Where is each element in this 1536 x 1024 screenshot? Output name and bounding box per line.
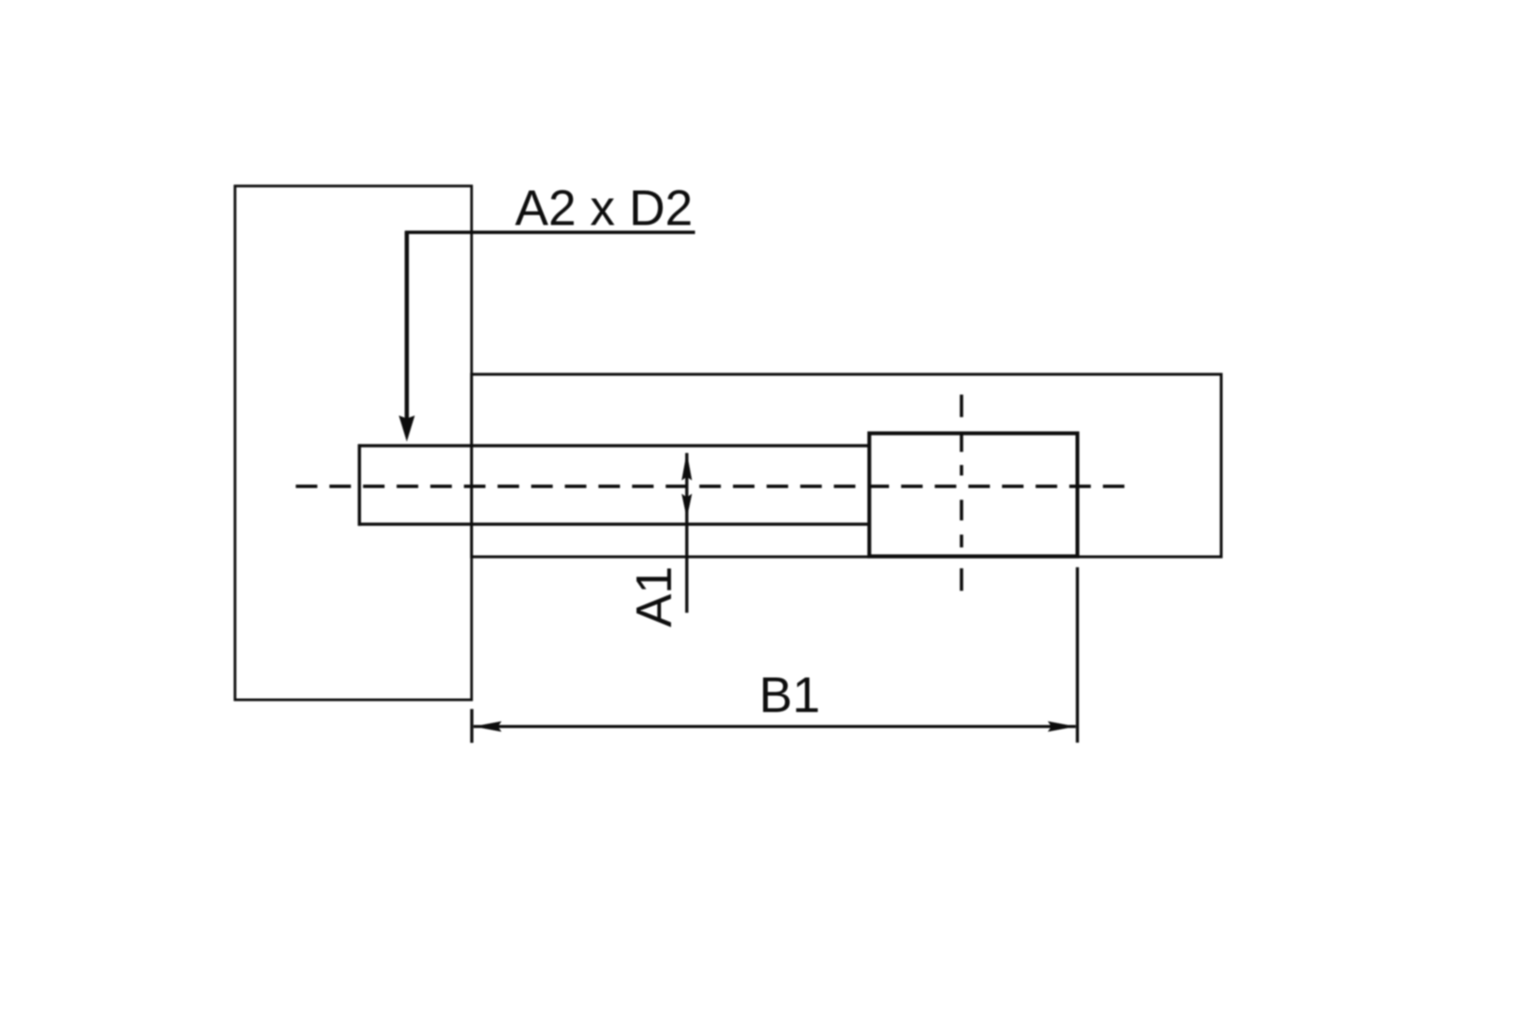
A1 down arrowhead — [682, 494, 692, 519]
shaft top line — [358, 444, 869, 447]
leader horizontal line under A2 x D2 — [405, 231, 695, 234]
flange body (tall rectangle, left) — [235, 186, 472, 700]
A1 up arrowhead — [682, 452, 692, 480]
svg-text:A2 x D2: A2 x D2 — [515, 180, 693, 236]
B1 right extension line — [1076, 567, 1079, 742]
leader vertical line — [405, 232, 409, 424]
svg-text:B1: B1 — [759, 667, 820, 723]
leader arrowhead (down) — [399, 416, 415, 442]
B1 left arrowhead — [474, 721, 502, 731]
boss rectangle — [869, 433, 1077, 556]
B1 dimension line — [474, 725, 1076, 728]
vertical centerline — [960, 395, 963, 591]
B1 right arrowhead — [1048, 721, 1076, 731]
A1 dimension line vertical — [685, 453, 688, 613]
svg-text:A1: A1 — [626, 566, 682, 627]
shaft bottom line — [358, 523, 869, 526]
B1 left extension line — [470, 709, 473, 743]
shaft left edge — [358, 444, 361, 525]
horizontal centerline — [296, 485, 1125, 488]
plate body (wide rectangle, right) — [472, 374, 1222, 557]
